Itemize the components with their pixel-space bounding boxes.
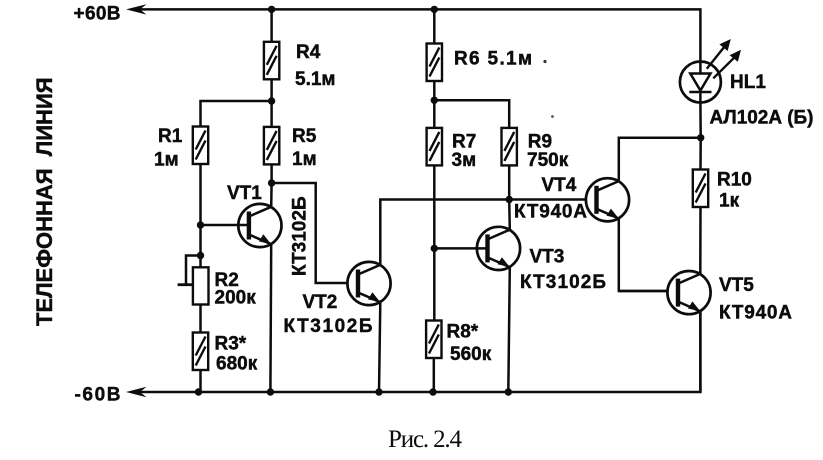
wire R4 top lead — [270, 9, 273, 41]
svg-text:ТЕЛЕФОННАЯ ЛИНИЯ: ТЕЛЕФОННАЯ ЛИНИЯ — [32, 77, 57, 326]
wire VT4 collector — [619, 138, 701, 181]
wire HL1 to node — [699, 103, 702, 138]
node VT3 emitter / -60V rail — [505, 388, 512, 395]
resistor R10 — [693, 170, 708, 208]
svg-text:VT4: VT4 — [542, 175, 577, 196]
wire top rail — [134, 9, 700, 61]
transistor VT3 — [477, 227, 520, 270]
svg-text:1к: 1к — [719, 191, 740, 212]
svg-text:1м: 1м — [292, 149, 317, 170]
wire VT2 emitter — [379, 302, 380, 392]
-60V arrow — [126, 387, 147, 397]
svg-text:680к: 680к — [216, 354, 258, 375]
node VT2 emitter / -60V rail — [375, 388, 382, 395]
svg-text:Рис. 2.4: Рис. 2.4 — [388, 426, 463, 453]
svg-text:R5: R5 — [292, 126, 317, 147]
wire R10 bottom lead / VT5 collector — [699, 207, 702, 274]
svg-text:КТ3102Б: КТ3102Б — [284, 316, 373, 337]
svg-text:+60В: +60В — [74, 4, 121, 25]
LED HL1 — [680, 39, 741, 103]
wire R6 bottom lead — [433, 81, 436, 100]
svg-text:R1: R1 — [158, 126, 183, 147]
svg-text:КТ3102Б: КТ3102Б — [520, 272, 606, 293]
wire R10 top lead — [699, 138, 702, 170]
wire R2-R3 — [199, 305, 202, 333]
svg-text:R10: R10 — [717, 170, 752, 191]
wire R5 bottom lead — [270, 164, 273, 183]
wire VT5 emitter — [699, 311, 702, 392]
svg-text:5.1м: 5.1м — [295, 69, 335, 90]
wire VT5 base — [619, 290, 668, 293]
wire VT1 collector to VT2 base link — [272, 183, 348, 283]
wire VT4 emitter to VT5 base — [619, 219, 668, 292]
node R7/R8/VT3 base — [431, 245, 438, 252]
wire R3 bottom lead — [199, 370, 202, 392]
svg-text:3м: 3м — [452, 150, 477, 171]
svg-text:VT2: VT2 — [303, 292, 338, 313]
resistor R9 — [502, 128, 517, 165]
wire R7 top lead — [433, 100, 436, 128]
wire bottom rail — [134, 311, 700, 392]
resistor R7 — [427, 128, 442, 165]
node top rail / R4 — [268, 6, 275, 13]
svg-text:КТ940А: КТ940А — [719, 303, 792, 324]
svg-text:КТ3102Б: КТ3102Б — [290, 196, 311, 276]
transistor VT2 — [347, 262, 390, 305]
resistor R4 — [264, 42, 279, 80]
resistor R8* — [426, 321, 441, 359]
svg-text:VT1: VT1 — [227, 183, 262, 204]
transistor VT4 — [586, 178, 629, 221]
wire R1 top link — [201, 101, 272, 127]
svg-text:VT3: VT3 — [530, 247, 565, 268]
node R3 / -60V rail — [195, 388, 202, 395]
node R9/VT3 collector — [506, 196, 513, 203]
wire R8 bottom lead — [433, 358, 436, 392]
svg-text:200к: 200к — [215, 288, 257, 309]
wire VT3 base — [434, 247, 487, 250]
speck — [551, 115, 554, 118]
resistor R5 — [264, 127, 279, 164]
wire VT1 emitter — [269, 244, 272, 392]
svg-text:R3*: R3* — [215, 334, 247, 355]
resistor R1 — [193, 127, 208, 165]
wire R6 top lead — [433, 9, 436, 43]
transistor VT5 — [667, 271, 710, 314]
svg-text:R8*: R8* — [447, 322, 479, 343]
wire R7 bottom lead — [433, 165, 436, 320]
speck — [543, 60, 546, 63]
resistor R3* — [193, 333, 208, 371]
node HL1/R10/VT4 collector — [697, 134, 704, 141]
wire R1 bottom lead — [199, 164, 202, 268]
svg-text:R6 5.1м: R6 5.1м — [454, 49, 532, 70]
node R8 / -60V rail — [429, 388, 436, 395]
wire VT3 collector — [508, 200, 511, 230]
svg-text:HL1: HL1 — [730, 72, 766, 93]
node VT1 emitter / -60V rail — [267, 388, 274, 395]
node R2 top / wiper — [197, 252, 204, 259]
node R1/R2/VT1 base — [197, 221, 204, 228]
transistor VT1 — [238, 204, 281, 247]
svg-text:750к: 750к — [527, 150, 569, 171]
wire R2 wiper link — [186, 256, 201, 285]
svg-text:1м: 1м — [154, 150, 179, 171]
wire VT2 collector — [380, 200, 586, 265]
wire R5 top lead — [270, 101, 273, 127]
wire VT1 collector — [270, 183, 273, 207]
wire R4 bottom lead — [270, 80, 273, 101]
svg-text:560к: 560к — [450, 344, 492, 365]
svg-text:КТ940А: КТ940А — [514, 202, 587, 223]
node R4/R5/R1 — [268, 97, 275, 104]
svg-text:VT5: VT5 — [719, 275, 754, 296]
resistor R2 (trimmer) — [193, 267, 209, 304]
resistor R6 — [427, 44, 442, 82]
wire R9 bottom lead — [508, 165, 511, 199]
svg-text:АЛ102А (Б): АЛ102А (Б) — [710, 108, 814, 129]
node top rail / R6 — [431, 6, 438, 13]
wire VT1 base — [201, 224, 249, 227]
node R6/R7/R9 — [431, 97, 438, 104]
+60V arrow — [126, 4, 147, 14]
node R5/VT1 collector — [268, 179, 275, 186]
R2 wiper bar — [178, 283, 193, 286]
svg-text:R4: R4 — [296, 42, 321, 63]
wire VT3 emitter — [508, 267, 510, 392]
wire R9 top link — [434, 100, 509, 128]
